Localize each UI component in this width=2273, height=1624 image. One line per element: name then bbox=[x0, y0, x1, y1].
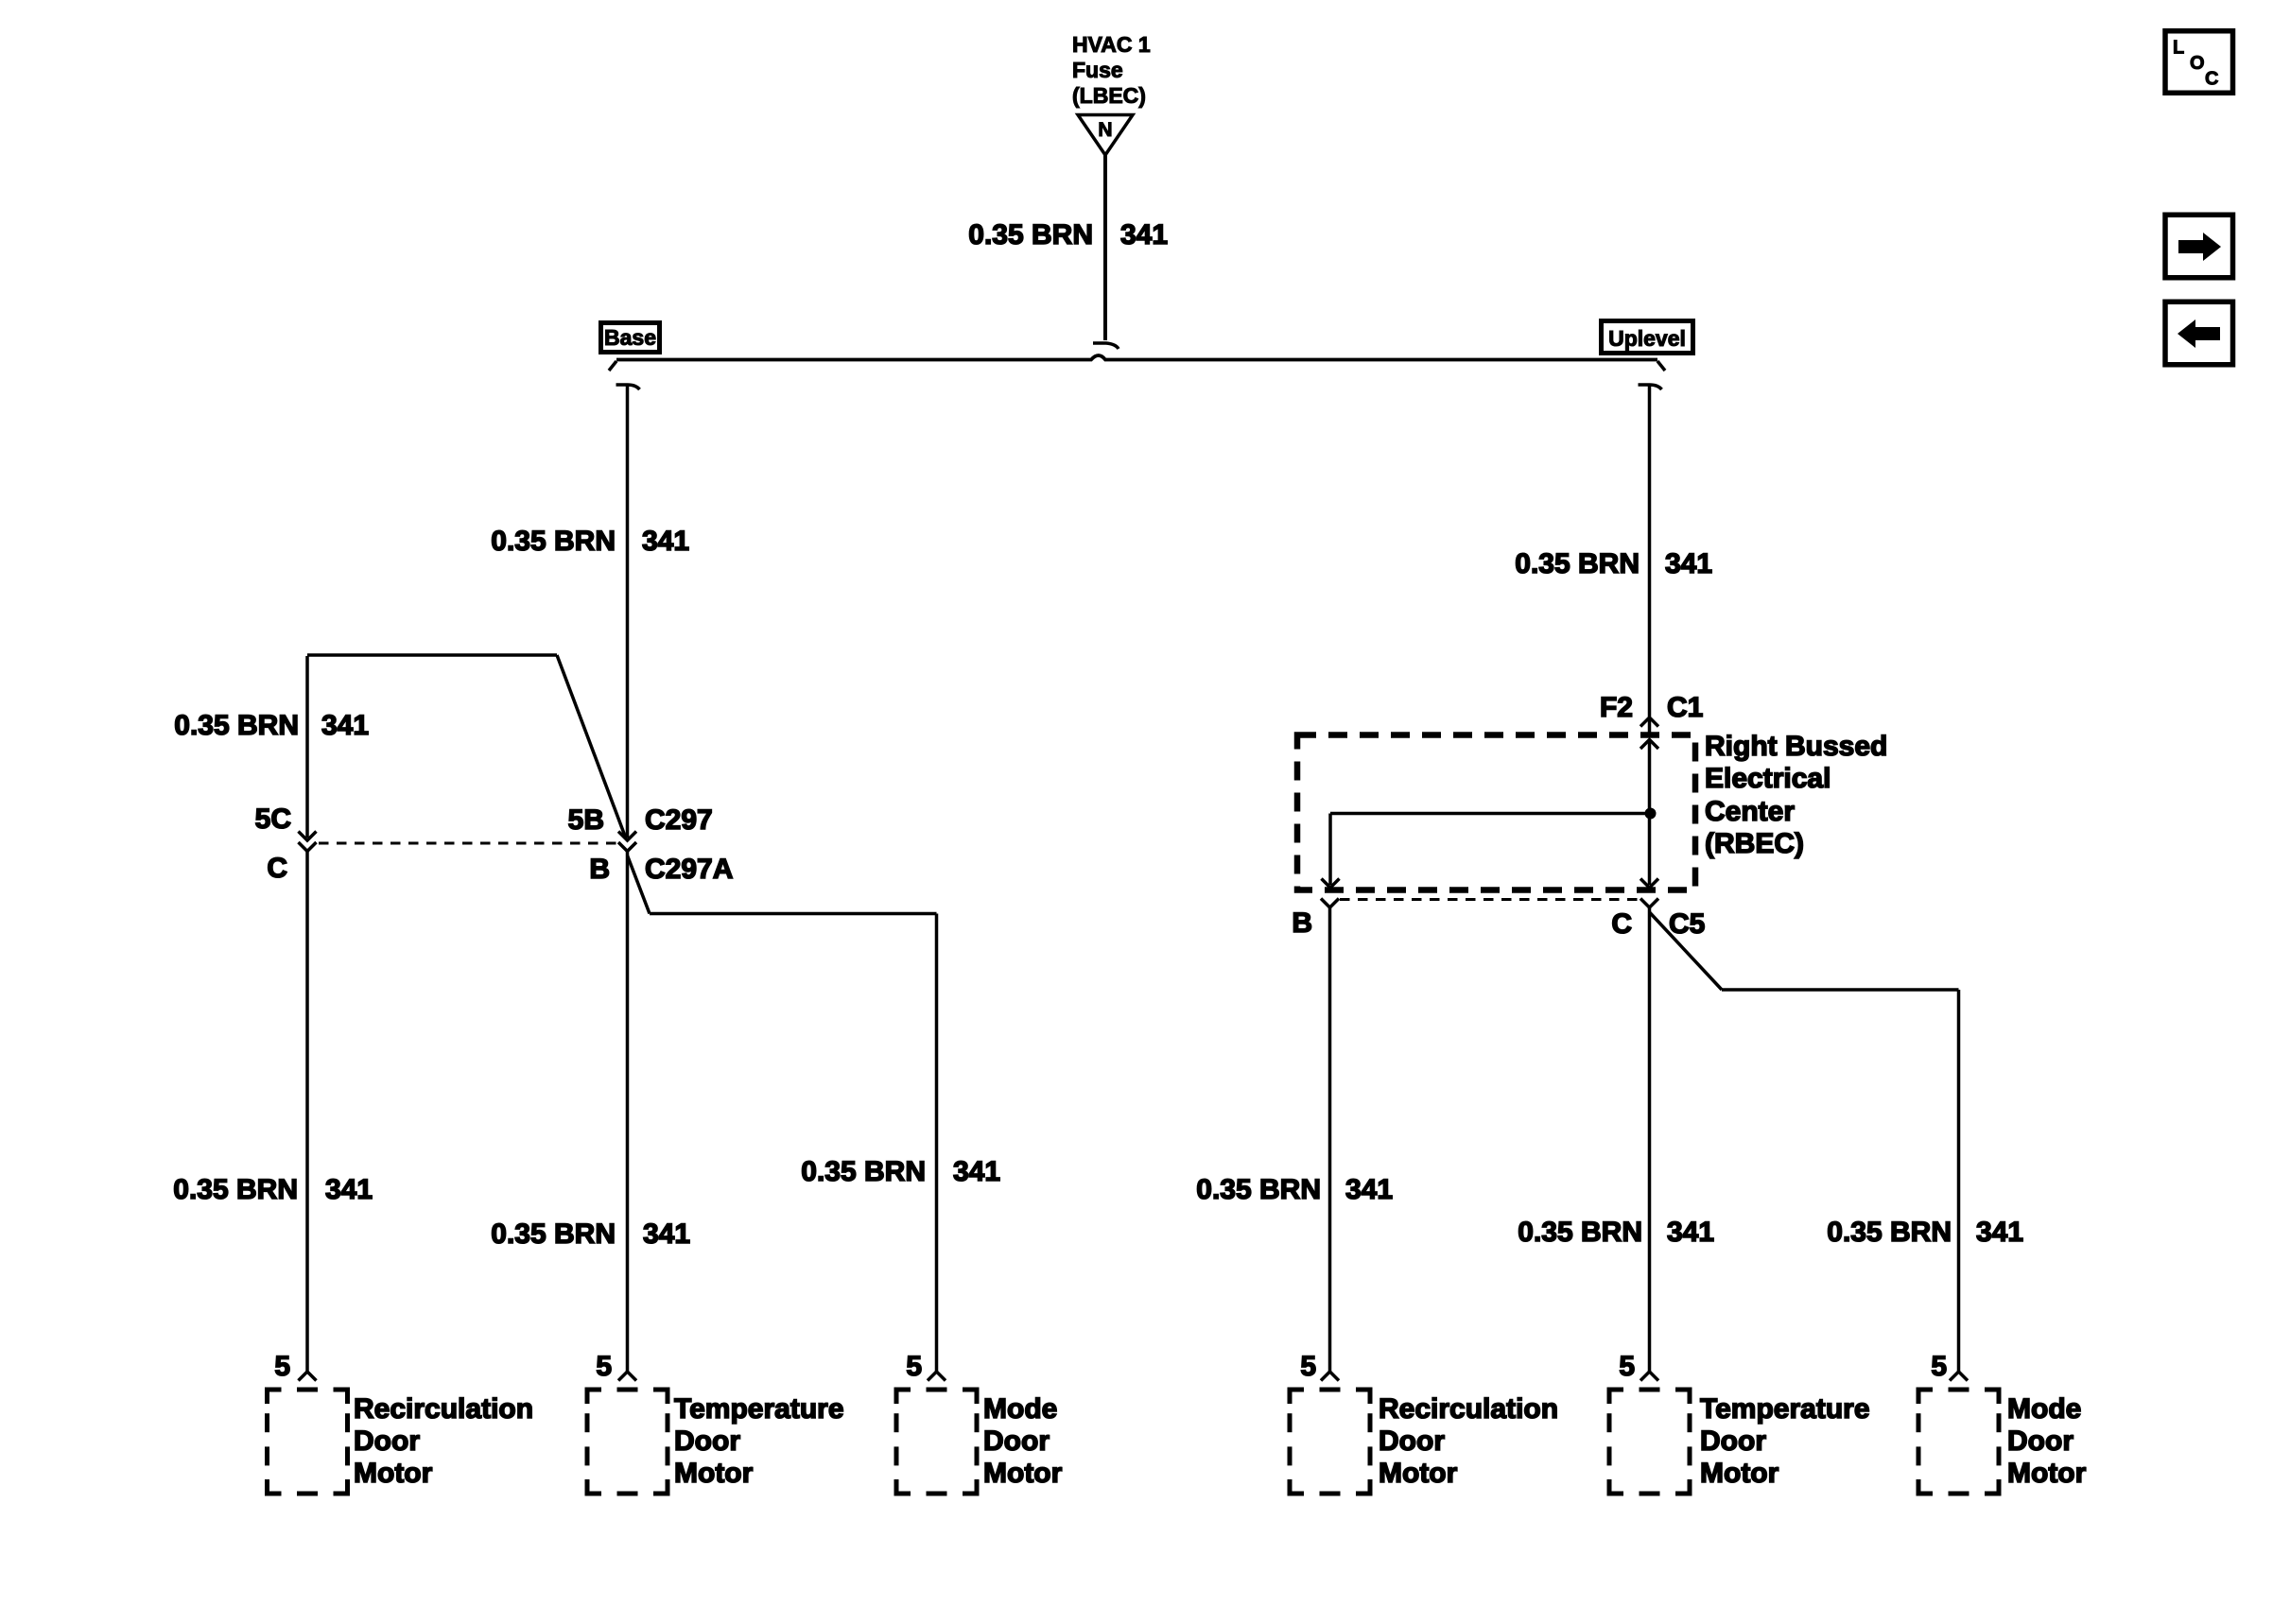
pin 5 arrow (base recirculation) bbox=[299, 1372, 317, 1381]
wire recirculation door motor feed (base) bbox=[305, 852, 309, 1373]
svg-text:HVAC 1: HVAC 1 bbox=[1072, 32, 1151, 57]
svg-text:5C: 5C bbox=[255, 803, 291, 835]
svg-text:C297: C297 bbox=[645, 804, 713, 836]
svg-text:0.35 BRN: 0.35 BRN bbox=[1827, 1217, 1952, 1248]
svg-text:341: 341 bbox=[953, 1156, 1000, 1187]
svg-text:Recirculation: Recirculation bbox=[354, 1393, 533, 1425]
pin label 5 (uplevel recirculation) bbox=[1300, 1351, 1316, 1382]
svg-text:C: C bbox=[1611, 908, 1632, 940]
svg-text:0.35 BRN: 0.35 BRN bbox=[491, 1218, 616, 1250]
motor label Recirculation Door Motor (uplevel recirculation) bbox=[1379, 1393, 1558, 1489]
connector C297A pin B arrow bbox=[618, 842, 636, 852]
svg-text:Motor: Motor bbox=[1379, 1458, 1458, 1489]
fuse F1 label "HVAC 1 / Fuse / (LBEC)" bbox=[1072, 32, 1151, 108]
svg-text:Base: Base bbox=[604, 325, 656, 350]
motor dashed box (base mode door motor) bbox=[896, 1390, 977, 1494]
svg-text:F2: F2 bbox=[1600, 692, 1633, 723]
svg-text:0.35 BRN: 0.35 BRN bbox=[1518, 1217, 1642, 1248]
icon arrow right (next page) bbox=[2165, 215, 2233, 278]
svg-text:0.35 BRN: 0.35 BRN bbox=[968, 219, 1093, 251]
wire mode branch diagonal (uplevel) bbox=[1650, 912, 1723, 990]
svg-text:5B: 5B bbox=[568, 804, 604, 836]
svg-text:N: N bbox=[1098, 119, 1112, 141]
svg-text:0.35 BRN: 0.35 BRN bbox=[491, 526, 616, 557]
svg-text:Motor: Motor bbox=[1700, 1458, 1779, 1489]
wire label 0.35 BRN 341 (recirc uplevel) bbox=[1196, 1174, 1393, 1205]
motor label Temperature Door Motor (uplevel temperature) bbox=[1700, 1393, 1870, 1489]
connector C1 arrow (inside RBEC) bbox=[1640, 740, 1658, 750]
wire mode branch horizontal (base) bbox=[650, 912, 937, 916]
svg-text:5: 5 bbox=[1931, 1351, 1947, 1382]
connector C1 arrow (above RBEC) bbox=[1640, 717, 1658, 733]
svg-text:Door: Door bbox=[1700, 1425, 1766, 1457]
svg-text:C1: C1 bbox=[1667, 692, 1703, 723]
svg-text:Uplevel: Uplevel bbox=[1608, 326, 1686, 351]
connector label C297A bbox=[645, 854, 733, 885]
svg-text:Mode: Mode bbox=[2007, 1393, 2081, 1425]
svg-text:Door: Door bbox=[2007, 1425, 2073, 1457]
wire recirculation branch (vertical to C297) bbox=[305, 656, 309, 838]
wire label 0.35 BRN 341 (mode uplevel) bbox=[1827, 1217, 2023, 1248]
bus wire left end hook bbox=[609, 361, 616, 371]
svg-text:341: 341 bbox=[1120, 219, 1168, 251]
svg-text:5: 5 bbox=[274, 1351, 290, 1382]
svg-text:Motor: Motor bbox=[983, 1458, 1063, 1489]
connector C297 dashed mating line bbox=[319, 842, 618, 845]
pin 5 arrow (base temperature) bbox=[618, 1372, 636, 1381]
wire label 0.35 BRN 341 (Base branch) bbox=[491, 526, 689, 557]
connector C5 pin C arrow (below) bbox=[1640, 899, 1658, 908]
svg-text:341: 341 bbox=[321, 710, 369, 741]
svg-text:0.35 BRN: 0.35 BRN bbox=[173, 1174, 298, 1205]
pin 5 arrow (uplevel mode) bbox=[1950, 1372, 1968, 1381]
icon LOC (page locator) bbox=[2165, 31, 2233, 94]
motor label Mode Door Motor (uplevel mode) bbox=[2007, 1393, 2087, 1489]
icon arrow left (previous page) bbox=[2165, 302, 2233, 365]
bus wire right end hook bbox=[1657, 361, 1665, 371]
wire Base branch (vertical to C297) bbox=[626, 385, 630, 838]
bus wire Base/Uplevel split (horizontal) bbox=[616, 355, 1657, 360]
connector C5 pin B arrow (below) bbox=[1321, 899, 1339, 908]
RBEC dashed box bbox=[1297, 735, 1695, 890]
svg-text:Temperature: Temperature bbox=[1700, 1393, 1870, 1425]
wire recirculation branch diagonal bbox=[557, 655, 626, 838]
motor dashed box (uplevel temperature door motor) bbox=[1609, 1390, 1690, 1494]
svg-text:L: L bbox=[2173, 38, 2184, 59]
svg-text:0.35 BRN: 0.35 BRN bbox=[801, 1156, 926, 1187]
svg-text:Electrical: Electrical bbox=[1705, 763, 1831, 794]
svg-text:Door: Door bbox=[1379, 1425, 1445, 1457]
wire Uplevel branch (vertical to RBEC C1) bbox=[1648, 385, 1652, 717]
svg-text:Motor: Motor bbox=[354, 1458, 433, 1489]
pin label 5 (uplevel temperature) bbox=[1619, 1351, 1635, 1382]
svg-text:(RBEC): (RBEC) bbox=[1705, 828, 1804, 859]
option label Base bbox=[601, 323, 660, 353]
svg-text:Motor: Motor bbox=[674, 1458, 754, 1489]
wire recirculation branch top (horizontal) bbox=[307, 653, 557, 657]
svg-text:C: C bbox=[2205, 69, 2218, 90]
pin label 5 (base mode) bbox=[906, 1351, 922, 1382]
svg-text:5: 5 bbox=[1619, 1351, 1635, 1382]
svg-text:341: 341 bbox=[1345, 1174, 1393, 1205]
node junction dot (RBEC bus) bbox=[1645, 808, 1657, 820]
svg-text:(LBEC): (LBEC) bbox=[1072, 83, 1146, 108]
wire mode door motor feed (base) bbox=[935, 914, 939, 1373]
wire break at Base branch top bbox=[616, 385, 640, 389]
svg-text:O: O bbox=[2190, 53, 2205, 74]
RBEC pin C arrow (inside) bbox=[1640, 879, 1658, 889]
wire temperature door motor feed (base) bbox=[626, 852, 630, 1373]
option label Uplevel bbox=[1602, 321, 1693, 354]
pin 5 arrow (base mode) bbox=[928, 1372, 946, 1381]
svg-text:Door: Door bbox=[354, 1425, 420, 1457]
connector C297 pin 5B arrow bbox=[618, 832, 636, 841]
connector C5 dashed mating line bbox=[1340, 898, 1642, 901]
pin label 5 (base temperature) bbox=[596, 1351, 612, 1382]
wire temperature door motor feed (uplevel) bbox=[1648, 907, 1652, 1373]
wire recirculation door motor feed (uplevel) bbox=[1328, 907, 1332, 1373]
svg-text:341: 341 bbox=[643, 1218, 690, 1250]
svg-text:341: 341 bbox=[1667, 1217, 1714, 1248]
svg-text:Door: Door bbox=[674, 1425, 740, 1457]
motor dashed box (uplevel mode door motor) bbox=[1918, 1390, 1999, 1494]
wire label 0.35 BRN 341 (temp uplevel) bbox=[1518, 1217, 1714, 1248]
RBEC label Right Bussed Electrical Center (RBEC) bbox=[1705, 731, 1887, 859]
motor dashed box (uplevel recirculation door motor) bbox=[1290, 1390, 1370, 1494]
wire break at fuse feed bottom bbox=[1093, 343, 1119, 349]
fuse symbol N (triangle) bbox=[1078, 115, 1133, 156]
motor label Recirculation Door Motor (base recirculation) bbox=[354, 1393, 533, 1489]
connector label C297 bbox=[645, 804, 713, 836]
svg-text:5: 5 bbox=[906, 1351, 922, 1382]
pin label C (RBEC) bbox=[1611, 908, 1632, 940]
svg-text:C5: C5 bbox=[1669, 908, 1705, 940]
pin label F2 bbox=[1600, 692, 1633, 723]
pin 5 arrow (uplevel recirculation) bbox=[1321, 1372, 1339, 1381]
wire label 0.35 BRN 341 (temp base) bbox=[491, 1218, 690, 1250]
wire mode door motor feed (uplevel) bbox=[1957, 990, 1961, 1373]
svg-text:C297A: C297A bbox=[645, 854, 733, 885]
svg-text:0.35 BRN: 0.35 BRN bbox=[1515, 548, 1640, 579]
wire label 0.35 BRN 341 (mode base) bbox=[801, 1156, 1000, 1187]
motor dashed box (base recirculation door motor) bbox=[268, 1390, 348, 1494]
svg-text:Recirculation: Recirculation bbox=[1379, 1393, 1558, 1425]
svg-text:5: 5 bbox=[1300, 1351, 1316, 1382]
wire label 0.35 BRN 341 (fuse feed) bbox=[968, 219, 1168, 251]
svg-text:341: 341 bbox=[325, 1174, 373, 1205]
pin label B (C297A) bbox=[589, 854, 610, 885]
svg-text:Door: Door bbox=[983, 1425, 1050, 1457]
svg-text:C: C bbox=[267, 853, 287, 884]
svg-text:341: 341 bbox=[1665, 548, 1712, 579]
svg-text:5: 5 bbox=[596, 1351, 612, 1382]
svg-text:0.35 BRN: 0.35 BRN bbox=[174, 710, 299, 741]
connector C297A pin C arrow bbox=[299, 842, 317, 852]
wire break at Uplevel branch top bbox=[1639, 385, 1662, 389]
wire mode branch diagonal (base) bbox=[628, 855, 651, 914]
wire RBEC internal vertical (to pin B) bbox=[1328, 814, 1332, 886]
svg-text:B: B bbox=[589, 854, 610, 885]
pin label 5C bbox=[255, 803, 291, 835]
svg-text:341: 341 bbox=[642, 526, 689, 557]
svg-text:Motor: Motor bbox=[2007, 1458, 2087, 1489]
wire label 0.35 BRN 341 (recirculation branch upper) bbox=[174, 710, 369, 741]
svg-text:341: 341 bbox=[1976, 1217, 2023, 1248]
pin label B (RBEC) bbox=[1292, 907, 1312, 939]
pin label C (C297A left) bbox=[267, 853, 287, 884]
wire fuse feed (vertical) bbox=[1103, 155, 1107, 340]
svg-text:Mode: Mode bbox=[983, 1393, 1057, 1425]
connector label C1 bbox=[1667, 692, 1703, 723]
wire mode branch horizontal (uplevel) bbox=[1722, 988, 1959, 992]
svg-text:Fuse: Fuse bbox=[1072, 58, 1123, 82]
wire RBEC internal horizontal bbox=[1330, 812, 1651, 816]
svg-text:Center: Center bbox=[1705, 796, 1795, 827]
svg-text:Temperature: Temperature bbox=[674, 1393, 844, 1425]
pin label 5B bbox=[568, 804, 604, 836]
svg-text:0.35 BRN: 0.35 BRN bbox=[1196, 1174, 1321, 1205]
pin label 5 (base recirculation) bbox=[274, 1351, 290, 1382]
pin label 5 (uplevel mode) bbox=[1931, 1351, 1947, 1382]
motor label Temperature Door Motor (base temperature) bbox=[674, 1393, 844, 1489]
svg-text:Right Bussed: Right Bussed bbox=[1705, 731, 1887, 762]
wire RBEC internal vertical (C1 to C5) bbox=[1648, 740, 1652, 886]
wire label 0.35 BRN 341 (recirc base) bbox=[173, 1174, 373, 1205]
wire label 0.35 BRN 341 (Uplevel branch) bbox=[1515, 548, 1712, 579]
pin 5 arrow (uplevel temperature) bbox=[1640, 1372, 1658, 1381]
motor label Mode Door Motor (base mode) bbox=[983, 1393, 1063, 1489]
connector C297 pin 5C arrow bbox=[299, 832, 317, 841]
svg-text:B: B bbox=[1292, 907, 1312, 939]
motor dashed box (base temperature door motor) bbox=[587, 1390, 668, 1494]
connector label C5 bbox=[1669, 908, 1705, 940]
RBEC pin B arrow (inside) bbox=[1322, 879, 1340, 889]
